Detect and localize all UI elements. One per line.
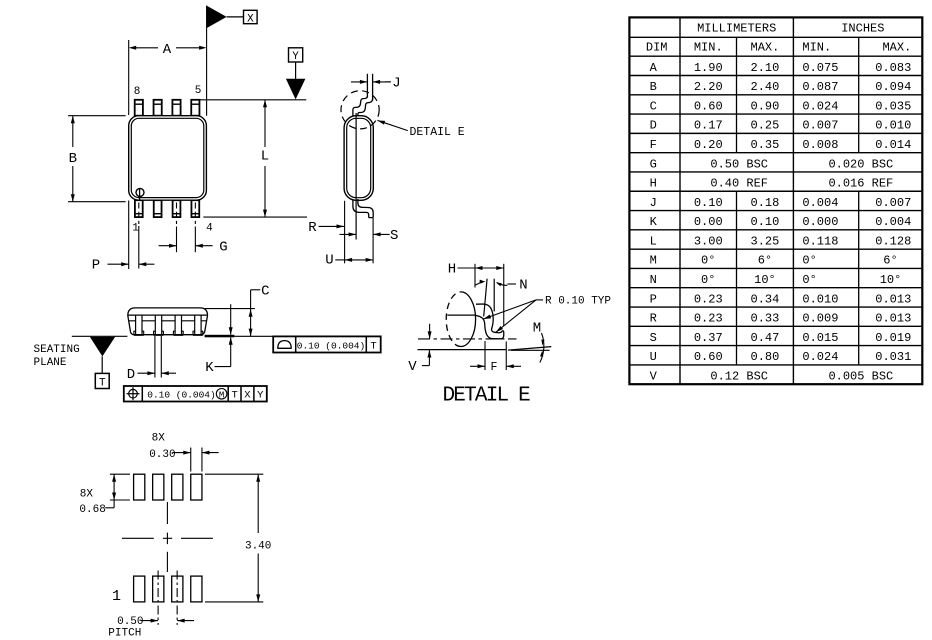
svg-text:1.90: 1.90 xyxy=(694,61,723,75)
svg-text:1: 1 xyxy=(132,223,139,235)
svg-text:A: A xyxy=(163,42,172,58)
svg-text:DETAIL E: DETAIL E xyxy=(442,385,530,408)
svg-text:0.010: 0.010 xyxy=(875,119,911,133)
svg-text:0.25: 0.25 xyxy=(751,119,780,133)
svg-text:3.25: 3.25 xyxy=(751,234,780,248)
svg-text:P: P xyxy=(92,257,100,273)
svg-text:C: C xyxy=(261,283,269,299)
svg-text:SEATING: SEATING xyxy=(34,344,80,356)
svg-text:0.007: 0.007 xyxy=(875,196,911,210)
svg-text:F: F xyxy=(490,361,497,374)
svg-text:0.30: 0.30 xyxy=(149,449,175,461)
svg-text:B: B xyxy=(69,151,77,167)
svg-text:Y: Y xyxy=(292,51,299,63)
svg-text:S: S xyxy=(650,331,657,345)
svg-text:PITCH: PITCH xyxy=(108,628,141,640)
svg-text:6°: 6° xyxy=(883,254,897,268)
svg-text:V: V xyxy=(408,359,417,375)
svg-text:0.009: 0.009 xyxy=(802,312,838,326)
svg-text:0.007: 0.007 xyxy=(802,119,838,133)
svg-text:5: 5 xyxy=(195,85,202,97)
svg-text:0.35: 0.35 xyxy=(751,138,780,152)
svg-text:0.013: 0.013 xyxy=(875,312,911,326)
svg-text:0.000: 0.000 xyxy=(802,215,838,229)
svg-text:0.094: 0.094 xyxy=(875,80,911,94)
svg-text:X: X xyxy=(247,14,254,26)
svg-text:U: U xyxy=(325,252,333,268)
svg-text:S: S xyxy=(390,228,398,244)
svg-text:X: X xyxy=(244,390,251,402)
svg-text:R: R xyxy=(308,220,317,236)
svg-text:0.12 BSC: 0.12 BSC xyxy=(710,370,768,384)
svg-text:4: 4 xyxy=(206,223,213,235)
svg-text:0°: 0° xyxy=(802,273,816,287)
svg-text:0.087: 0.087 xyxy=(802,80,838,94)
svg-text:G: G xyxy=(650,157,657,171)
svg-text:0°: 0° xyxy=(701,254,715,268)
svg-text:D: D xyxy=(650,119,657,133)
svg-text:0.34: 0.34 xyxy=(751,292,780,306)
svg-text:0.024: 0.024 xyxy=(802,99,838,113)
svg-text:N: N xyxy=(519,278,527,294)
svg-text:T: T xyxy=(231,390,237,402)
svg-text:0.50: 0.50 xyxy=(117,616,143,628)
svg-text:0.019: 0.019 xyxy=(875,331,911,345)
svg-text:F: F xyxy=(650,138,657,152)
svg-text:B: B xyxy=(650,80,657,94)
svg-text:0.10 (0.004): 0.10 (0.004) xyxy=(297,340,365,351)
svg-text:8X: 8X xyxy=(152,432,166,444)
svg-text:0°: 0° xyxy=(802,254,816,268)
svg-text:MAX.: MAX. xyxy=(751,41,780,55)
svg-text:0.20: 0.20 xyxy=(694,138,723,152)
svg-text:J: J xyxy=(650,196,657,210)
svg-text:T: T xyxy=(370,340,376,352)
svg-text:10°: 10° xyxy=(880,273,902,287)
svg-text:0.020 BSC: 0.020 BSC xyxy=(828,157,893,171)
svg-text:M: M xyxy=(219,390,224,400)
svg-text:N: N xyxy=(650,273,657,287)
svg-text:0.50 BSC: 0.50 BSC xyxy=(710,157,768,171)
svg-text:0.075: 0.075 xyxy=(802,61,838,75)
svg-text:2.40: 2.40 xyxy=(751,80,780,94)
svg-text:0.008: 0.008 xyxy=(802,138,838,152)
svg-text:0.23: 0.23 xyxy=(694,312,723,326)
svg-text:C: C xyxy=(650,99,657,113)
svg-text:3.00: 3.00 xyxy=(694,234,723,248)
svg-text:0.004: 0.004 xyxy=(875,215,911,229)
svg-text:0.128: 0.128 xyxy=(875,234,911,248)
svg-text:R: R xyxy=(650,312,657,326)
svg-text:2.20: 2.20 xyxy=(694,80,723,94)
svg-text:A: A xyxy=(650,61,658,75)
svg-text:0.10 (0.004): 0.10 (0.004) xyxy=(147,390,215,401)
svg-text:G: G xyxy=(219,239,227,255)
svg-text:0.47: 0.47 xyxy=(751,331,780,345)
svg-text:T: T xyxy=(99,378,106,390)
svg-text:0°: 0° xyxy=(701,273,715,287)
svg-text:0.18: 0.18 xyxy=(751,196,780,210)
svg-text:H: H xyxy=(448,262,456,278)
svg-text:0.083: 0.083 xyxy=(875,61,911,75)
svg-text:U: U xyxy=(650,350,657,364)
svg-text:0.33: 0.33 xyxy=(751,312,780,326)
svg-text:J: J xyxy=(392,76,400,92)
svg-text:PLANE: PLANE xyxy=(34,357,67,369)
svg-text:0.37: 0.37 xyxy=(694,331,723,345)
svg-text:V: V xyxy=(650,370,658,384)
svg-text:0.035: 0.035 xyxy=(875,99,911,113)
svg-text:0.024: 0.024 xyxy=(802,350,838,364)
svg-text:0.00: 0.00 xyxy=(694,215,723,229)
svg-text:INCHES: INCHES xyxy=(841,22,884,36)
svg-text:MIN.: MIN. xyxy=(694,41,723,55)
svg-text:10°: 10° xyxy=(754,273,776,287)
svg-text:0.68: 0.68 xyxy=(79,504,105,516)
svg-text:DETAIL E: DETAIL E xyxy=(410,126,465,139)
svg-text:K: K xyxy=(650,215,658,229)
svg-text:0.60: 0.60 xyxy=(694,350,723,364)
svg-text:2.10: 2.10 xyxy=(751,61,780,75)
svg-text:0.013: 0.013 xyxy=(875,292,911,306)
svg-text:0.118: 0.118 xyxy=(802,234,838,248)
svg-text:0.031: 0.031 xyxy=(875,350,911,364)
svg-text:0.60: 0.60 xyxy=(694,99,723,113)
svg-text:D: D xyxy=(127,367,135,383)
svg-text:0.90: 0.90 xyxy=(751,99,780,113)
svg-text:P: P xyxy=(650,292,657,306)
svg-text:L: L xyxy=(261,148,269,164)
svg-text:0.014: 0.014 xyxy=(875,138,911,152)
svg-text:8: 8 xyxy=(134,86,141,98)
svg-text:0.010: 0.010 xyxy=(802,292,838,306)
svg-text:M: M xyxy=(650,254,657,268)
svg-text:0.004: 0.004 xyxy=(802,196,838,210)
svg-text:0.23: 0.23 xyxy=(694,292,723,306)
svg-text:M: M xyxy=(533,321,541,337)
svg-text:0.016 REF: 0.016 REF xyxy=(828,177,893,191)
svg-text:H: H xyxy=(650,177,657,191)
svg-text:0.17: 0.17 xyxy=(694,119,723,133)
svg-text:MAX.: MAX. xyxy=(882,41,911,55)
svg-text:L: L xyxy=(650,234,657,248)
svg-text:0.005 BSC: 0.005 BSC xyxy=(828,370,893,384)
svg-text:DIM: DIM xyxy=(646,41,668,55)
svg-text:3.40: 3.40 xyxy=(245,541,271,553)
svg-text:6°: 6° xyxy=(758,254,772,268)
svg-text:MILLIMETERS: MILLIMETERS xyxy=(697,22,776,36)
svg-text:1: 1 xyxy=(112,588,121,605)
svg-text:0.10: 0.10 xyxy=(751,215,780,229)
svg-text:K: K xyxy=(205,360,214,376)
svg-text:0.10: 0.10 xyxy=(694,196,723,210)
svg-text:0.40 REF: 0.40 REF xyxy=(710,177,768,191)
svg-text:8X: 8X xyxy=(80,489,94,501)
svg-text:0.80: 0.80 xyxy=(751,350,780,364)
svg-text:0.015: 0.015 xyxy=(802,331,838,345)
svg-text:R 0.10 TYP: R 0.10 TYP xyxy=(545,296,611,308)
svg-text:Y: Y xyxy=(257,390,264,402)
svg-text:MIN.: MIN. xyxy=(802,41,831,55)
